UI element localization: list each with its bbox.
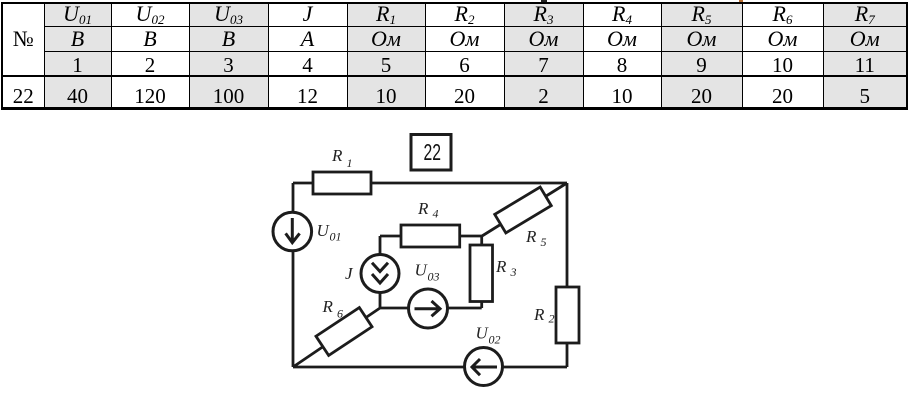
svg-text:U: U [317, 221, 331, 240]
svg-text:R: R [322, 297, 334, 316]
svg-text:1: 1 [347, 156, 353, 170]
svg-text:R: R [417, 199, 429, 218]
svg-text:R: R [331, 146, 343, 165]
svg-text:R: R [495, 257, 507, 276]
svg-text:5: 5 [541, 235, 547, 249]
svg-text:3: 3 [510, 265, 517, 279]
svg-text:01: 01 [330, 230, 342, 244]
svg-text:U: U [415, 261, 429, 280]
svg-text:J: J [345, 264, 354, 283]
svg-text:4: 4 [433, 207, 439, 221]
svg-text:6: 6 [337, 307, 343, 321]
svg-text:02: 02 [489, 333, 501, 347]
svg-text:03: 03 [428, 270, 440, 284]
svg-text:22: 22 [424, 139, 442, 165]
svg-text:R: R [533, 305, 545, 324]
svg-text:R: R [525, 227, 537, 246]
svg-text:2: 2 [549, 312, 555, 326]
svg-text:U: U [476, 324, 490, 343]
